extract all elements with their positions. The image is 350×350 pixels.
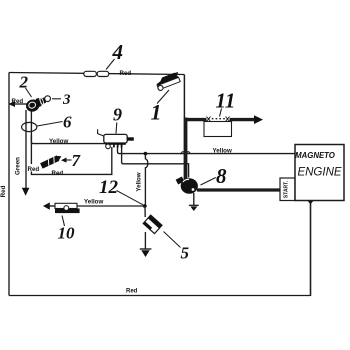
wire yellow left (key switch to switch 9) [31,135,105,144]
leader 12 [117,191,144,205]
bulb 3 [45,96,51,102]
svg-text:Red: Red [52,170,64,177]
fuse holder box 11 [204,122,232,137]
wire crossover ticks at thick cable [181,152,185,155]
svg-text:Yellow: Yellow [49,138,68,145]
fuse 4 [84,71,109,76]
solenoid 8 [176,176,198,193]
svg-text:10: 10 [58,224,76,243]
switch 9 [98,129,134,148]
leader 6 [37,122,63,127]
svg-text:9: 9 [113,105,122,125]
ground arrow green wire [22,188,30,196]
wire down to switch 5 [144,206,146,217]
wire green vertical [25,110,27,188]
ground symbol under solenoid [189,204,199,206]
wire bottom red (border) [9,295,311,297]
svg-text:ENGINE: ENGINE [297,166,341,178]
svg-text:Red: Red [120,70,132,77]
node triangle at engine bottom [307,201,313,205]
svg-text:5: 5 [181,244,190,263]
svg-text:4: 4 [112,40,124,64]
node junction dot [144,152,148,156]
wire yellow vertical with hop [145,154,147,206]
svg-text:MAGNETO: MAGNETO [295,151,335,160]
wire top red (border) [9,73,184,75]
svg-text:8: 8 [216,164,227,188]
leader 9 [115,123,118,134]
key switch 2 [24,95,47,113]
svg-text:Red: Red [126,289,138,295]
connector 10 [43,202,80,213]
node: junction arrow on left border [8,101,15,107]
start box [280,178,295,201]
oval 6 [22,122,37,131]
leader arrow 7 [61,158,67,163]
svg-text:11: 11 [216,89,236,113]
svg-text:START.: START. [284,180,290,198]
leader 8 [201,178,216,186]
svg-text:Red: Red [0,185,7,197]
svg-text:Yellow: Yellow [136,172,143,191]
label red (left of connector 7) [27,164,41,173]
wire red tap to key switch [13,103,28,105]
svg-text:6: 6 [63,113,72,132]
svg-text:2: 2 [19,73,29,92]
svg-text:Green: Green [15,157,22,175]
svg-text:1: 1 [151,100,162,125]
svg-text:Yellow: Yellow [84,198,103,205]
wire: thin vertical from top corner down [183,75,185,119]
leader 4 [106,59,115,70]
leader 1 [157,90,169,104]
leader 10 [62,216,65,227]
leader dash to 3 [52,98,61,100]
wire yellow to connector 10 [49,205,145,207]
engine box [295,145,344,201]
connector 7 [40,154,63,169]
wire 11 thick cable with arrow [185,118,207,121]
connector 1 [155,72,181,91]
switch 5 [143,215,162,233]
wire yellow to engine [118,146,296,154]
ground symbol under switch 5 [140,248,152,250]
leader 11 [220,109,222,117]
wire engine box to bottom border [310,201,312,297]
wire red from switch9 loop to key switch [31,110,111,174]
svg-text:Red: Red [12,98,24,105]
wire: thick vertical battery cable [184,118,188,181]
svg-text:Yellow: Yellow [213,147,232,154]
svg-text:3: 3 [62,92,71,108]
wire switch 5 to ground [144,232,146,249]
node junction dot 12 [143,204,147,208]
leader 2 [26,88,32,97]
svg-text:Red: Red [28,166,40,173]
wire left red (border) [8,73,10,296]
leader 5 [164,232,181,248]
wire to solenoid S terminal [122,146,189,178]
svg-text:12: 12 [99,177,119,198]
wire solenoid to start box (thick) [197,188,281,191]
wire right red (border) [310,201,312,296]
wire solenoid to ground [193,193,195,205]
wire stub connector 1 [172,73,178,75]
